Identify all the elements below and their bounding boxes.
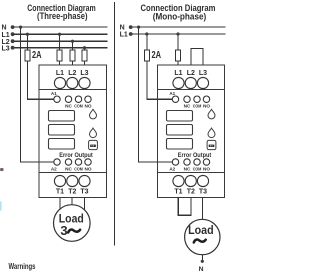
- svg-text:NC: NC: [65, 104, 72, 109]
- svg-text:L3: L3: [80, 70, 88, 77]
- svg-text:NO: NO: [84, 166, 91, 171]
- svg-text:L1: L1: [120, 32, 128, 39]
- svg-text:N: N: [2, 25, 7, 32]
- svg-text:L1: L1: [2, 32, 10, 39]
- svg-text:NC: NC: [65, 166, 72, 171]
- svg-text:COM: COM: [74, 104, 83, 109]
- svg-text:NO: NO: [84, 104, 91, 109]
- svg-text:L1: L1: [174, 70, 182, 77]
- svg-text:T3: T3: [80, 189, 88, 196]
- svg-text:2A: 2A: [32, 50, 42, 61]
- svg-text:COM: COM: [193, 104, 202, 109]
- svg-text:NO: NO: [203, 166, 210, 171]
- svg-text:Load: Load: [188, 225, 214, 237]
- svg-text:L3: L3: [199, 70, 207, 77]
- svg-text:T3: T3: [199, 189, 207, 196]
- svg-text:(Three-phase): (Three-phase): [37, 11, 88, 21]
- svg-text:COM: COM: [74, 166, 83, 171]
- svg-text:L3: L3: [2, 45, 10, 52]
- svg-text:NC: NC: [184, 104, 191, 109]
- svg-text:L1: L1: [56, 70, 64, 77]
- svg-text:(Mono-phase): (Mono-phase): [153, 11, 207, 21]
- svg-text:Warnings: Warnings: [9, 262, 36, 271]
- svg-text:T1: T1: [174, 189, 182, 196]
- svg-text:COM: COM: [193, 166, 202, 171]
- svg-text:N: N: [199, 266, 204, 272]
- svg-text:2A: 2A: [152, 50, 162, 61]
- svg-text:L2: L2: [68, 70, 76, 77]
- svg-text:T2: T2: [68, 189, 76, 196]
- svg-text:A2: A2: [169, 166, 175, 171]
- svg-text:T1: T1: [56, 189, 64, 196]
- svg-text:A1: A1: [169, 91, 175, 96]
- svg-text:Error Output: Error Output: [178, 152, 212, 159]
- svg-text:NO: NO: [203, 104, 210, 109]
- svg-text:T2: T2: [187, 189, 195, 196]
- svg-text:NC: NC: [184, 166, 191, 171]
- svg-text:L2: L2: [187, 70, 195, 77]
- svg-text:A1: A1: [51, 91, 57, 96]
- svg-text:3: 3: [60, 223, 67, 238]
- svg-text:A2: A2: [51, 166, 57, 171]
- svg-text:Error Output: Error Output: [59, 152, 93, 159]
